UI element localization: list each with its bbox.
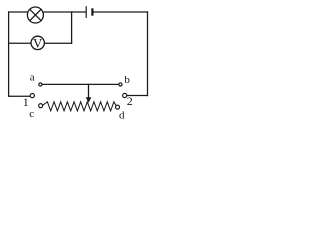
svg-text:c: c <box>29 108 34 120</box>
wire voltmeter branch right <box>45 42 72 44</box>
wire right vertical <box>147 12 149 96</box>
svg-text:1: 1 <box>23 95 29 109</box>
terminal c circle <box>39 104 43 108</box>
battery cell long plate <box>85 7 87 17</box>
svg-text:V: V <box>33 35 43 50</box>
wire top middle (lamp to battery) <box>44 11 85 13</box>
rheostat slider bar a-b <box>42 83 118 85</box>
wire top right (battery to corner) <box>94 11 148 13</box>
svg-text:a: a <box>30 71 35 83</box>
wire voltmeter branch vertical up <box>71 12 73 43</box>
terminal b circle <box>119 83 122 86</box>
svg-text:2: 2 <box>127 94 133 108</box>
terminal 1 circle <box>30 94 34 98</box>
terminal a circle <box>39 83 42 86</box>
battery cell short plate <box>91 9 93 14</box>
wire left vertical <box>8 12 10 96</box>
rheostat resistor zigzag <box>43 102 116 111</box>
rheostat wiper stem <box>88 84 90 97</box>
lamp L1 <box>27 7 43 23</box>
wire bottom right (to terminal 2) <box>127 95 148 97</box>
rheostat wiper arrowhead <box>86 97 92 103</box>
wire bottom left (to terminal 1) <box>9 95 30 97</box>
terminal d circle <box>116 105 120 109</box>
wire voltmeter branch left <box>9 42 31 44</box>
svg-text:b: b <box>124 74 130 86</box>
wire top left (to lamp) <box>9 11 28 13</box>
voltmeter V <box>31 36 44 49</box>
svg-text:d: d <box>119 109 125 121</box>
terminal 2 circle <box>123 93 127 97</box>
